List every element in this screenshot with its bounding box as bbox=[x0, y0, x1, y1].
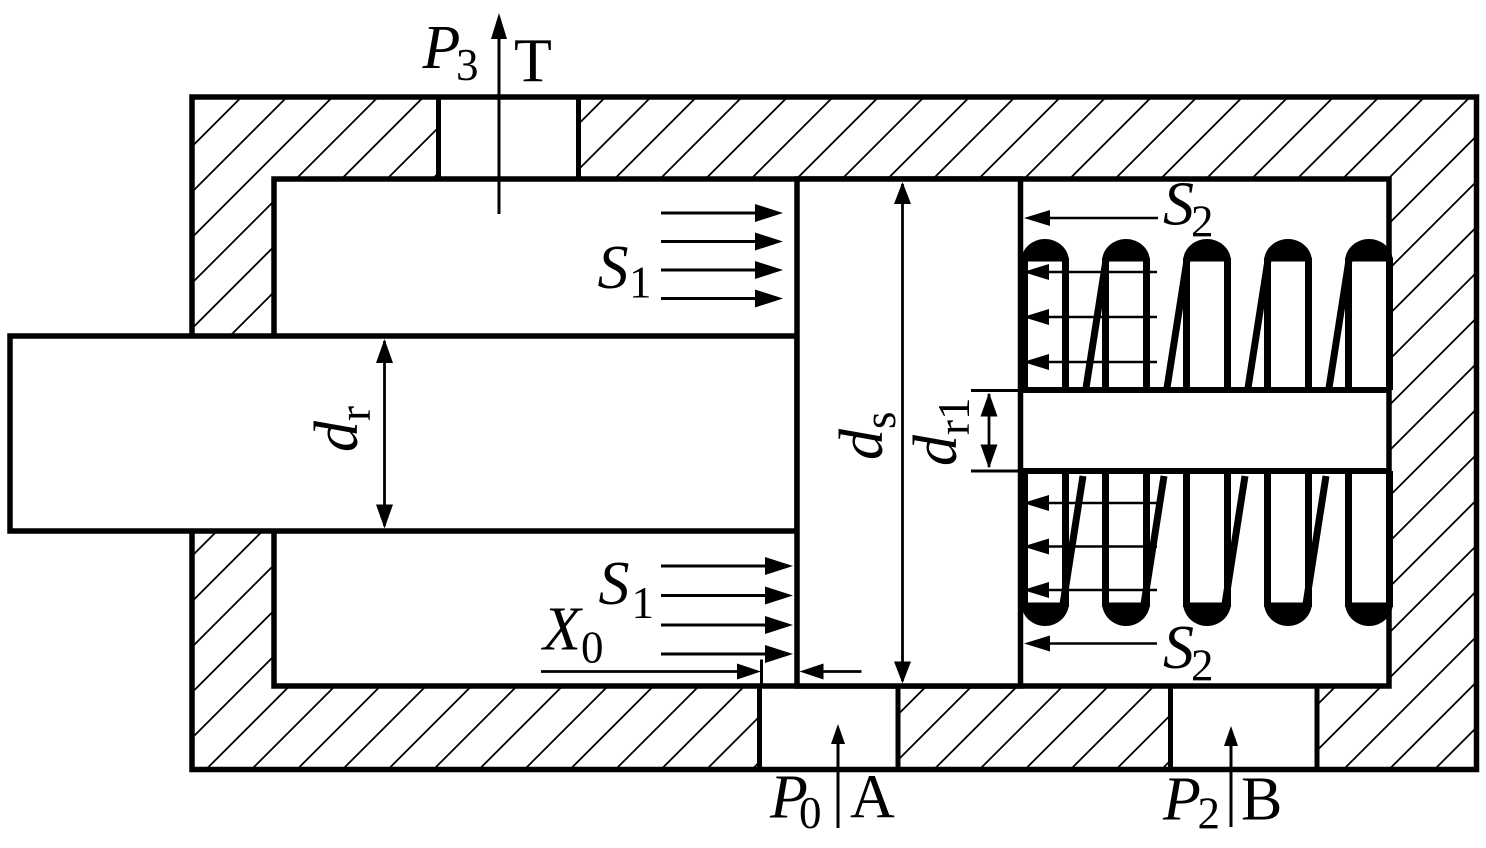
svg-text:0: 0 bbox=[581, 623, 604, 673]
return spring (sectioned coils), upper half bbox=[1021, 239, 1069, 261]
port T flow arrow bbox=[498, 36, 501, 214]
svg-text:2: 2 bbox=[1191, 197, 1214, 247]
svg-text:T: T bbox=[514, 28, 552, 96]
svg-text:X: X bbox=[540, 596, 583, 664]
piston rod (left, dr) bbox=[10, 336, 797, 531]
spring seat rod (dr1) bbox=[1021, 387, 1390, 393]
S1 pressure arrows, lower group bbox=[661, 565, 767, 568]
return spring coils, lower half bbox=[1021, 603, 1069, 626]
svg-text:1: 1 bbox=[629, 258, 652, 308]
S2 spring force arrows, upper group bbox=[1023, 264, 1049, 280]
S1 pressure arrows, upper group bbox=[661, 212, 757, 215]
svg-text:2: 2 bbox=[1191, 641, 1214, 691]
dr1 extension line bottom bbox=[971, 470, 1021, 473]
valve bore (inner cavity) outline bbox=[274, 179, 1389, 686]
svg-text:B: B bbox=[1241, 766, 1282, 834]
svg-text:P: P bbox=[1162, 766, 1201, 834]
spool land (ds) bbox=[797, 179, 1021, 686]
S2 spring force arrows, lower group bbox=[1023, 495, 1049, 511]
port A opening walls bbox=[757, 686, 762, 769]
port B opening walls bbox=[1168, 686, 1173, 769]
svg-text:0: 0 bbox=[799, 788, 822, 838]
S2 label arrow (lower) bbox=[1024, 636, 1050, 652]
dimension X0 bbox=[541, 670, 739, 673]
dimension dr (rod diameter) bbox=[383, 341, 386, 526]
housing outer wall outline bbox=[192, 97, 1477, 770]
valve housing body (hatched section) bbox=[192, 96, 1476, 769]
X0 tick mark bbox=[760, 660, 763, 685]
svg-text:1: 1 bbox=[632, 578, 655, 628]
svg-text:P: P bbox=[422, 14, 461, 82]
svg-text:S: S bbox=[598, 234, 629, 302]
dr1 extension line top bbox=[971, 389, 1021, 392]
svg-text:S: S bbox=[599, 550, 630, 618]
svg-text:A: A bbox=[850, 764, 895, 832]
S2 label arrow (upper) bbox=[1024, 210, 1050, 226]
dimension ds (spool diameter) bbox=[901, 184, 904, 681]
port B flow arrow bbox=[1230, 744, 1233, 827]
svg-text:S: S bbox=[1163, 171, 1194, 239]
port T opening walls bbox=[436, 96, 441, 179]
svg-text:3: 3 bbox=[456, 40, 479, 90]
port A flow arrow bbox=[837, 742, 840, 828]
svg-text:2: 2 bbox=[1198, 789, 1221, 839]
svg-text:S: S bbox=[1163, 614, 1194, 682]
